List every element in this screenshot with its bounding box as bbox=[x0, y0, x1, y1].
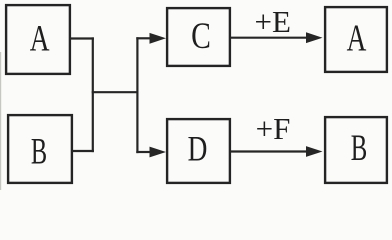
trunk vertical bbox=[92, 37, 94, 152]
box D (middle-bottom) bbox=[167, 119, 230, 183]
svg-text:+F: +F bbox=[256, 111, 291, 146]
box B1 (bottom-left) bbox=[8, 115, 72, 183]
svg-text:D: D bbox=[188, 129, 208, 168]
arrow split to D bbox=[136, 147, 166, 158]
box B2 (bottom-right) bbox=[325, 117, 387, 183]
arrow D to B2 bbox=[230, 146, 323, 157]
svg-text:A: A bbox=[347, 17, 367, 60]
svg-text:B: B bbox=[351, 127, 368, 168]
wire A1 to trunk bbox=[70, 37, 94, 39]
scan edge artifact left bbox=[0, 52, 1, 190]
split vertical bbox=[136, 37, 138, 153]
box C (middle-top) bbox=[167, 8, 230, 66]
wire B1 to trunk bbox=[72, 150, 94, 152]
box A2 (top-right) bbox=[325, 7, 387, 72]
svg-text:C: C bbox=[191, 16, 211, 57]
arrow C to A2 bbox=[230, 32, 323, 43]
box A1 (top-left) bbox=[6, 5, 70, 74]
trunk horizontal bbox=[92, 91, 139, 93]
svg-text:B: B bbox=[31, 130, 47, 172]
arrow split to C bbox=[136, 33, 166, 44]
svg-text:+E: +E bbox=[254, 4, 290, 39]
svg-text:A: A bbox=[30, 19, 50, 60]
